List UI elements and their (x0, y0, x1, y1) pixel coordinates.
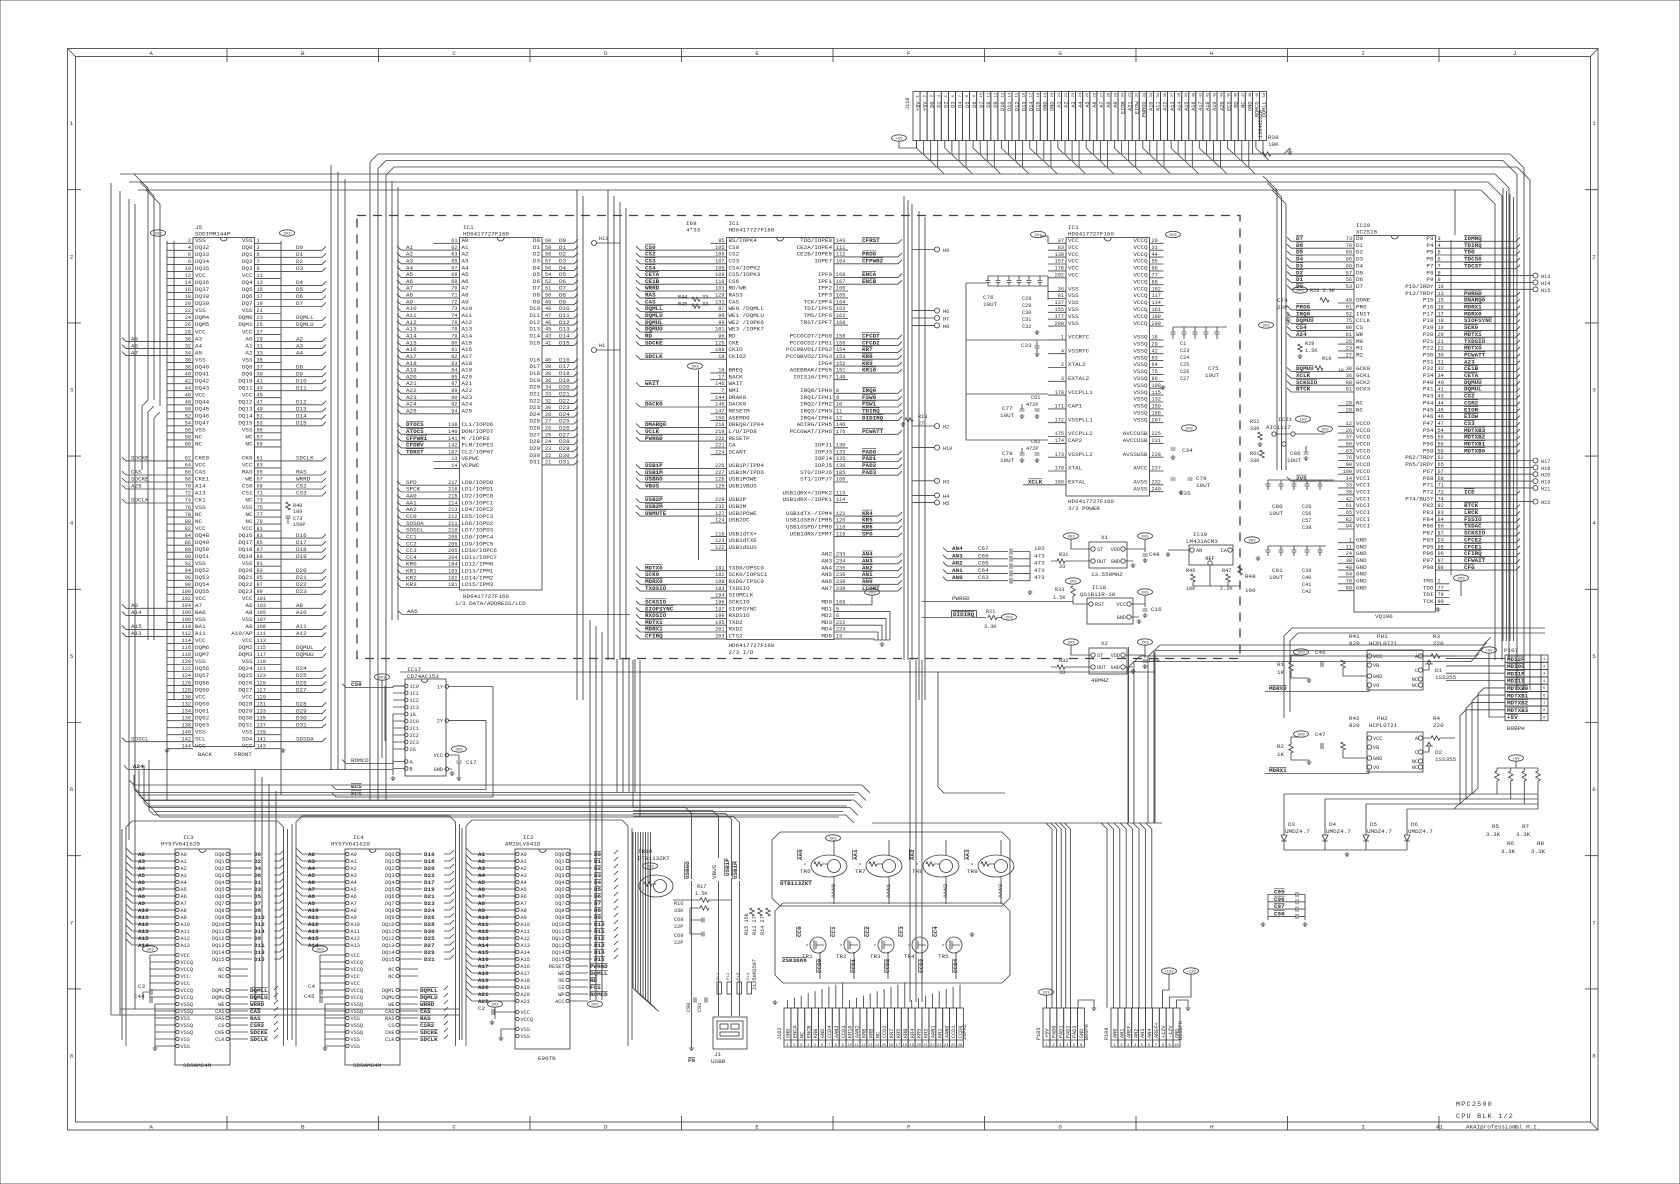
svg-text:120: 120 (836, 518, 845, 524)
svg-text:54: 54 (545, 272, 551, 278)
svg-text:3V3: 3V3 (378, 677, 386, 681)
svg-text:36: 36 (185, 357, 191, 363)
svg-text:D14: D14 (296, 413, 307, 420)
svg-text:VCC: VCC (242, 637, 253, 644)
svg-text:74: 74 (451, 313, 457, 319)
svg-text:178: 178 (1055, 266, 1064, 272)
svg-text:C77: C77 (1002, 405, 1013, 412)
svg-text:86: 86 (1152, 376, 1158, 382)
svg-text:A18: A18 (521, 978, 530, 984)
svg-text:C24: C24 (1180, 355, 1189, 361)
svg-text:13: 13 (1438, 291, 1444, 297)
wire rounded container bottom right section (1284, 628, 1545, 718)
svg-text:C4: C4 (308, 983, 316, 990)
svg-text:D23: D23 (296, 588, 307, 595)
svg-text:DACK0: DACK0 (645, 401, 663, 408)
svg-text:SDCLK: SDCLK (420, 1036, 438, 1043)
svg-text:100: 100 (1343, 469, 1352, 475)
svg-text:19: 19 (257, 301, 263, 307)
svg-text:M2: M2 (1356, 352, 1364, 359)
svg-text:B9BPH: B9BPH (1507, 725, 1525, 732)
svg-text:11: 11 (1346, 544, 1352, 550)
svg-text:R7: R7 (1522, 823, 1530, 830)
svg-text:AN3: AN3 (952, 552, 963, 559)
svg-text:AA0: AA0 (797, 849, 804, 860)
svg-text:51: 51 (545, 286, 551, 292)
svg-text:DQ9: DQ9 (215, 915, 224, 921)
svg-text:H11: H11 (599, 236, 608, 242)
svg-text:110: 110 (182, 624, 191, 630)
svg-text:42: 42 (1152, 348, 1158, 354)
svg-text:16: 16 (185, 287, 191, 293)
svg-text:154: 154 (836, 347, 845, 353)
svg-text:84: 84 (185, 533, 191, 539)
svg-text:DQ8: DQ8 (385, 908, 394, 914)
svg-text:VSSRTC: VSSRTC (1068, 347, 1090, 354)
svg-text:A13: A13 (478, 935, 489, 942)
svg-text:A7: A7 (351, 901, 357, 907)
svg-text:VSSQ: VSSQ (181, 1023, 193, 1029)
svg-text:VCC: VCC (195, 462, 206, 469)
svg-text:R5: R5 (1492, 823, 1500, 830)
svg-text:C69: C69 (674, 933, 683, 939)
svg-text:A3: A3 (181, 873, 187, 879)
svg-text:DQ2: DQ2 (242, 258, 253, 265)
svg-text:D11: D11 (296, 384, 307, 391)
svg-text:65: 65 (1438, 462, 1444, 468)
svg-text:14: 14 (451, 463, 457, 469)
svg-text:LM431ACM3: LM431ACM3 (1186, 538, 1218, 545)
svg-text:3V3: 3V3 (1297, 734, 1305, 738)
svg-text:CAS: CAS (215, 1009, 224, 1015)
svg-text:44: 44 (1152, 252, 1158, 258)
svg-text:A9: A9 (351, 915, 357, 921)
resistor R17 1.5K (673, 884, 732, 902)
svg-text:PWRGD: PWRGD (590, 963, 608, 970)
svg-text:167: 167 (836, 279, 845, 285)
svg-text:42: 42 (1346, 496, 1352, 502)
svg-text:D23: D23 (424, 900, 435, 907)
svg-text:58: 58 (185, 435, 191, 441)
svg-text:92: 92 (451, 402, 457, 408)
svg-text:6: 6 (1438, 257, 1441, 263)
svg-text:PWRGD: PWRGD (645, 435, 663, 442)
svg-text:DQ53: DQ53 (195, 574, 210, 581)
svg-text:D21: D21 (296, 574, 307, 581)
svg-text:60: 60 (185, 442, 191, 448)
svg-text:83: 83 (1438, 510, 1444, 516)
svg-text:17: 17 (718, 374, 724, 380)
svg-text:HD6417727F160: HD6417727F160 (729, 227, 775, 234)
svg-text:32: 32 (185, 343, 191, 349)
svg-text:70: 70 (451, 286, 457, 292)
svg-text:A12: A12 (138, 921, 149, 928)
svg-text:DQ6: DQ6 (555, 894, 564, 900)
svg-text:NC: NC (245, 518, 253, 525)
svg-text:1G: 1G (410, 712, 416, 718)
svg-text:+5V: +5V (1512, 758, 1520, 762)
svg-text:147: 147 (715, 409, 724, 415)
svg-text:57: 57 (1346, 270, 1352, 276)
resistor R21 3.3K DIDIRQ (922, 609, 1017, 630)
svg-text:DQ56: DQ56 (195, 665, 210, 672)
svg-text:159: 159 (1152, 404, 1161, 410)
svg-text:RD: RD (590, 977, 598, 984)
power flag 3V3 right of VSSQ (1182, 425, 1197, 432)
svg-text:A13: A13 (195, 490, 206, 497)
svg-text:40: 40 (185, 371, 191, 377)
svg-text:A3: A3 (308, 858, 316, 865)
svg-text:C57: C57 (1302, 518, 1311, 524)
svg-text:76: 76 (451, 320, 457, 326)
svg-text:FL2: FL2 (727, 972, 731, 980)
svg-text:13: 13 (868, 1044, 873, 1048)
svg-text:213: 213 (448, 507, 457, 513)
svg-text:VSS: VSS (195, 728, 206, 735)
svg-text:D8: D8 (254, 907, 262, 914)
svg-text:108: 108 (182, 617, 191, 623)
svg-text:DQM0: DQM0 (238, 314, 253, 321)
optocoupler PH2 HCPL0721 with R42 R2 C47 R4 D2 (1265, 715, 1457, 774)
svg-text:10UT: 10UT (1269, 510, 1284, 517)
svg-text:GND: GND (1373, 674, 1382, 680)
svg-text:DQ4: DQ4 (555, 880, 564, 886)
svg-text:240: 240 (1152, 486, 1161, 492)
svg-text:DQ44: DQ44 (195, 399, 210, 406)
svg-text:AIC1117: AIC1117 (1266, 424, 1291, 431)
svg-text:210: 210 (448, 528, 457, 534)
svg-text:42: 42 (185, 378, 191, 384)
svg-text:124: 124 (715, 518, 724, 524)
svg-text:D2: D2 (296, 258, 304, 265)
svg-text:DQ60: DQ60 (195, 700, 210, 707)
svg-text:C86: C86 (1290, 450, 1301, 457)
svg-text:H22: H22 (1541, 500, 1550, 506)
svg-text:H19: H19 (1541, 480, 1550, 486)
svg-text:29: 29 (257, 336, 263, 342)
svg-text:VSSQ: VSSQ (351, 1009, 363, 1015)
svg-text:D13: D13 (254, 949, 265, 956)
svg-text:A2: A2 (308, 851, 316, 858)
svg-text:AN: AN (1196, 548, 1202, 554)
svg-text:DQ1: DQ1 (242, 251, 253, 258)
svg-text:96: 96 (1438, 551, 1444, 557)
svg-text:SCANT: SCANT (729, 448, 747, 455)
svg-text:85: 85 (451, 374, 457, 380)
svg-text:C17: C17 (466, 759, 477, 766)
svg-text:63: 63 (257, 463, 263, 469)
svg-text:X2: X2 (1101, 640, 1109, 647)
svg-text:A20: A20 (521, 992, 530, 998)
connector P105 B06PH (1036, 989, 1097, 1048)
FPGA IC20 XC2S15 (1287, 222, 1533, 620)
svg-text:68: 68 (185, 477, 191, 483)
svg-text:95: 95 (718, 238, 724, 244)
svg-text:82: 82 (1438, 503, 1444, 509)
svg-text:69: 69 (451, 279, 457, 285)
regulator IC21 AIC1117 (1250, 416, 1333, 464)
svg-text:DQ0: DQ0 (555, 852, 564, 858)
svg-text:99: 99 (1438, 599, 1444, 605)
svg-text:A6: A6 (181, 894, 187, 900)
svg-text:143: 143 (257, 743, 266, 749)
svg-text:F: F (907, 1124, 911, 1131)
svg-text:USB1M: USB1M (732, 861, 739, 879)
svg-text:3V3: 3V3 (1069, 581, 1077, 585)
svg-text:TDCST: TDCST (1464, 262, 1482, 269)
svg-text:A25: A25 (462, 408, 473, 415)
svg-text:D8: D8 (594, 907, 602, 914)
wire bus IC1a to IC1b (577, 190, 626, 700)
svg-text:CK1: CK1 (195, 497, 206, 504)
svg-text:34: 34 (545, 385, 551, 391)
svg-text:A8: A8 (308, 893, 316, 900)
svg-text:D26: D26 (424, 914, 435, 921)
svg-text:3V3: 3V3 (1185, 428, 1193, 432)
svg-text:209: 209 (1152, 321, 1161, 327)
svg-text:VCC: VCC (242, 328, 253, 335)
svg-text:C28: C28 (1022, 296, 1031, 302)
svg-text:D7: D7 (296, 300, 304, 307)
svg-text:UMDZ4.7: UMDZ4.7 (1285, 828, 1310, 835)
svg-text:MDTXB2: MDTXB2 (1507, 700, 1529, 707)
svg-text:VCCQ: VCCQ (181, 960, 193, 966)
svg-text:USB1dRX/IPM7: USB1dRX/IPM7 (790, 530, 833, 537)
svg-text:DQ13: DQ13 (552, 943, 564, 949)
svg-text:SOSCL: SOSCL (131, 735, 149, 742)
svg-text:D3: D3 (1288, 821, 1296, 828)
svg-text:A0: A0 (181, 852, 187, 858)
svg-text:D17: D17 (424, 879, 435, 886)
svg-text:SDCLK: SDCLK (645, 353, 663, 360)
svg-text:76: 76 (1346, 455, 1352, 461)
svg-text:CAS: CAS (131, 469, 142, 476)
svg-text:VSSQ: VSSQ (181, 1002, 193, 1008)
svg-text:DQM1: DQM1 (238, 321, 253, 328)
svg-text:R1: R1 (1277, 661, 1285, 668)
svg-text:DQ40: DQ40 (195, 363, 210, 370)
svg-text:D6: D6 (254, 872, 262, 879)
svg-text:202: 202 (1055, 273, 1064, 279)
svg-text:117: 117 (257, 652, 266, 658)
svg-text:A18: A18 (478, 970, 489, 977)
svg-text:AN4: AN4 (952, 545, 963, 552)
svg-text:NC: NC (388, 974, 394, 980)
svg-text:H7: H7 (943, 317, 949, 323)
svg-text:18: 18 (1438, 318, 1444, 324)
svg-text:26: 26 (958, 1044, 963, 1048)
svg-text:75: 75 (1346, 318, 1352, 324)
svg-text:VCC: VCC (242, 391, 253, 398)
svg-text:33: 33 (1346, 483, 1352, 489)
svg-text:18: 18 (185, 294, 191, 300)
svg-text:143: 143 (836, 238, 845, 244)
svg-text:A15: A15 (138, 935, 149, 942)
svg-text:C95: C95 (1274, 889, 1285, 896)
svg-text:DQ0: DQ0 (385, 852, 394, 858)
svg-text:DQ36: DQ36 (195, 279, 210, 286)
svg-text:DQ63: DQ63 (195, 721, 210, 728)
svg-text:150P: 150P (293, 522, 305, 528)
svg-text:99: 99 (718, 320, 724, 326)
wire verticals below dashed box left (617, 659, 635, 792)
svg-text:GND: GND (1111, 559, 1120, 565)
svg-text:DQ42: DQ42 (195, 377, 210, 384)
svg-text:6: 6 (1543, 695, 1546, 699)
svg-text:15: 15 (257, 287, 263, 293)
svg-text:B: B (301, 1124, 305, 1131)
svg-text:VCC: VCC (242, 462, 253, 469)
svg-text:GND: GND (1373, 756, 1382, 762)
svg-text:DQ8: DQ8 (215, 908, 224, 914)
svg-text:211: 211 (448, 521, 457, 527)
svg-text:1: 1 (1061, 335, 1064, 341)
svg-text:33: 33 (702, 301, 708, 307)
svg-text:216: 216 (448, 487, 457, 493)
svg-text:DQMLU: DQMLU (250, 994, 268, 1001)
svg-text:A4: A4 (138, 865, 146, 872)
svg-text:D22: D22 (296, 581, 307, 588)
svg-text:56: 56 (1346, 277, 1352, 283)
svg-text:D11: D11 (594, 928, 605, 935)
svg-text:10: 10 (1174, 1044, 1179, 1048)
svg-text:ST: ST (1097, 653, 1103, 659)
svg-text:TXDSIO: TXDSIO (645, 585, 667, 592)
svg-text:VSS: VSS (195, 658, 206, 665)
svg-text:30: 30 (185, 336, 191, 342)
svg-text:XTAL: XTAL (1068, 465, 1083, 472)
svg-text:VSS: VSS (242, 560, 253, 567)
svg-text:GND: GND (1111, 665, 1120, 671)
svg-text:10K: 10K (1268, 141, 1279, 148)
svg-text:170: 170 (1055, 390, 1064, 396)
svg-text:CC1: CC1 (830, 926, 837, 937)
svg-text:E90TN: E90TN (538, 1055, 556, 1062)
svg-text:ENCB: ENCB (862, 278, 877, 285)
svg-text:3V3: 3V3 (1297, 652, 1305, 656)
svg-text:A8: A8 (478, 900, 486, 907)
svg-text:R41: R41 (1349, 633, 1360, 640)
svg-text:C61: C61 (1031, 395, 1040, 401)
svg-text:A6: A6 (521, 894, 527, 900)
svg-text:15: 15 (836, 634, 842, 640)
svg-text:121: 121 (836, 511, 845, 517)
svg-text:+5V: +5V (1485, 650, 1493, 654)
svg-text:A: A (149, 1124, 153, 1131)
svg-text:CAP1: CAP1 (1068, 403, 1083, 410)
svg-text:A0: A0 (245, 335, 253, 342)
svg-text:4: 4 (1061, 348, 1064, 354)
svg-text:R39: R39 (1268, 134, 1279, 141)
svg-text:4*33: 4*33 (686, 227, 701, 234)
resistors R5 R6 R7 R8 3.3K pullups (1486, 755, 1546, 855)
svg-text:65: 65 (1346, 510, 1352, 516)
svg-text:22P: 22P (674, 940, 683, 946)
svg-text:B06PH: B06PH (1084, 1024, 1090, 1040)
svg-text:26: 26 (1346, 428, 1352, 434)
svg-text:219: 219 (715, 429, 724, 435)
svg-text:UMDZ4.7: UMDZ4.7 (1408, 828, 1433, 835)
svg-text:61: 61 (257, 456, 263, 462)
svg-text:137: 137 (1055, 300, 1064, 306)
svg-text:VCCQ: VCCQ (181, 995, 193, 1001)
svg-text:CCD1: CCD1 (850, 958, 857, 973)
svg-text:P109: P109 (1104, 1028, 1110, 1040)
svg-text:194: 194 (715, 593, 724, 599)
svg-text:TR1: TR1 (802, 953, 813, 960)
svg-text:126: 126 (182, 680, 191, 686)
svg-text:D13: D13 (296, 406, 307, 413)
svg-text:60: 60 (1346, 263, 1352, 269)
svg-text:A9: A9 (138, 900, 146, 907)
svg-text:3V3: 3V3 (146, 949, 154, 953)
svg-text:30: 30 (1438, 353, 1444, 359)
svg-text:820: 820 (1349, 640, 1360, 647)
svg-text:214: 214 (448, 500, 457, 506)
svg-text:A12: A12 (478, 928, 489, 935)
svg-text:1: 1 (1543, 658, 1546, 662)
svg-text:VSSQ: VSSQ (1133, 416, 1148, 423)
svg-text:DQ1: DQ1 (555, 859, 564, 865)
svg-text:64: 64 (1152, 362, 1158, 368)
capacitors C4 C45 (304, 983, 322, 1003)
svg-text:A5: A5 (308, 872, 316, 879)
crystal X1 13.5MHZ (1051, 533, 1160, 578)
wire center verticals to J102 and TR blocks (910, 660, 1005, 1002)
svg-text:83: 83 (1058, 245, 1064, 251)
svg-text:87: 87 (1438, 531, 1444, 537)
svg-text:175: 175 (1055, 431, 1064, 437)
svg-text:235: 235 (836, 565, 845, 571)
svg-text:DQ39: DQ39 (195, 300, 210, 307)
svg-text:D18: D18 (424, 858, 435, 865)
svg-text:R32: R32 (1059, 658, 1068, 664)
svg-text:106: 106 (836, 477, 845, 483)
svg-text:A4: A4 (181, 880, 187, 886)
svg-text:AKAIprofessional M.I.: AKAIprofessional M.I. (1466, 1124, 1540, 1131)
svg-text:19: 19 (909, 1044, 914, 1048)
svg-text:DQ14: DQ14 (238, 413, 253, 420)
svg-text:A11: A11 (181, 929, 190, 935)
svg-text:J: J (1513, 50, 1517, 57)
svg-text:54: 54 (185, 421, 191, 427)
svg-text:D: D (604, 1124, 608, 1131)
svg-text:D10: D10 (296, 377, 307, 384)
wire bus left of IC20 (1263, 176, 1286, 470)
svg-text:AVSS: AVSS (1133, 485, 1148, 492)
svg-text:77: 77 (1152, 273, 1158, 279)
svg-text:VSS: VSS (242, 504, 253, 511)
wire mid horizontal bus below dashed box (129, 760, 870, 823)
svg-text:46: 46 (545, 320, 551, 326)
svg-text:DQM7: DQM7 (195, 651, 210, 658)
svg-text:H15: H15 (1541, 288, 1550, 294)
svg-text:103: 103 (1034, 545, 1045, 552)
svg-text:48: 48 (545, 306, 551, 312)
svg-text:33K: 33K (674, 908, 684, 914)
svg-text:80: 80 (185, 519, 191, 525)
svg-text:A2: A2 (181, 866, 187, 872)
svg-text:VCC: VCC (521, 1010, 530, 1016)
svg-text:DQML: DQML (382, 988, 394, 994)
svg-text:114: 114 (836, 497, 845, 503)
svg-text:CAS: CAS (385, 1009, 394, 1015)
svg-text:3V3: 3V3 (1141, 642, 1149, 646)
svg-text:138: 138 (448, 422, 457, 428)
svg-text:98: 98 (185, 582, 191, 588)
svg-text:AA1: AA1 (852, 849, 859, 860)
svg-text:128: 128 (182, 687, 191, 693)
